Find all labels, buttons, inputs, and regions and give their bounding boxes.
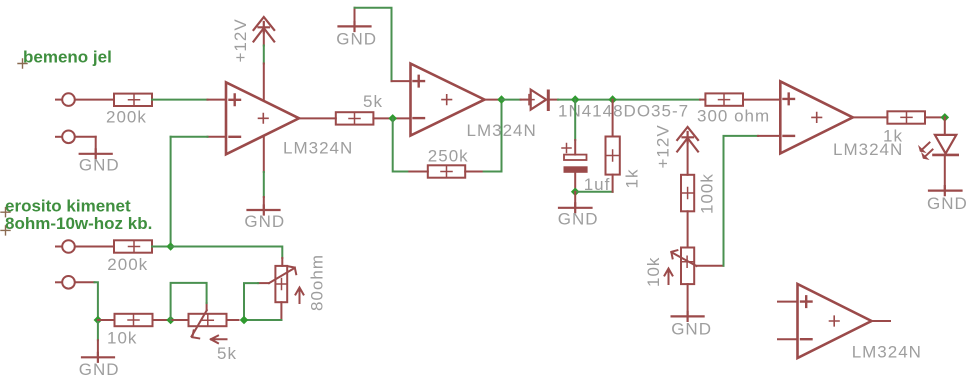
svg-text:GND: GND [244, 212, 285, 231]
svg-text:erosito kimenet: erosito kimenet [5, 197, 131, 216]
resistor R2 5k [336, 92, 383, 125]
node A junction [388, 114, 397, 123]
wire R3 to U1B out [465, 100, 501, 172]
svg-text:5k: 5k [363, 92, 383, 111]
svg-text:bemeno jel: bemeno jel [23, 48, 112, 67]
wire R4 to U1C +in [743, 99, 780, 101]
ground GND under pot R7 [671, 284, 712, 338]
ground GND under LED [927, 186, 968, 213]
node F junction [941, 113, 950, 122]
resistor R3 250k [428, 146, 469, 177]
ground GND under U1A [244, 206, 285, 232]
op-amp U1D LM324N (unused) [778, 284, 922, 362]
wire R2 to node A [373, 117, 410, 119]
label bemeno jel [18, 48, 112, 69]
wire R6 to pot R7 [687, 211, 689, 247]
wire U1A out to R2 [299, 117, 336, 119]
wire node J to pot R12 [171, 319, 189, 321]
wire diode to R4 300ohm [558, 99, 700, 101]
svg-text:8ohm-10w-hoz kb.: 8ohm-10w-hoz kb. [5, 214, 152, 233]
wire +12V to U1A V+ pin [263, 28, 265, 101]
wire node C down to capacitor [574, 100, 576, 155]
svg-text:LM324N: LM324N [283, 139, 353, 158]
wiper wire pot R10 [244, 283, 269, 320]
pin U1A V- and wire to GND [263, 136, 265, 210]
node B junction [497, 95, 506, 104]
wire J2 to ground [95, 137, 97, 154]
svg-text:200k: 200k [107, 255, 148, 274]
pin R8 to node F [925, 116, 945, 118]
label +12V (right) [654, 124, 673, 168]
wire node I to ground [97, 320, 99, 357]
resistor R4 300ohm [697, 93, 770, 125]
wire U1A -in [171, 137, 226, 247]
svg-text:300 ohm: 300 ohm [697, 107, 770, 126]
wire LED to ground [944, 155, 946, 191]
potentiometer R12 5k [189, 310, 237, 363]
connector J3 [56, 240, 114, 253]
supply +12V arrow [254, 17, 275, 42]
pin R4 left [700, 99, 705, 101]
pin node I to R11 [98, 319, 115, 321]
svg-text:GND: GND [79, 156, 120, 175]
ground GND bottom left [79, 353, 120, 379]
node G junction [166, 242, 175, 251]
op-amp U1C LM324N [780, 81, 903, 159]
svg-text:GND: GND [79, 360, 120, 379]
op-amp U1B LM324N [411, 64, 537, 140]
wire R11 to node J [153, 319, 171, 321]
svg-text:80ohm: 80ohm [308, 254, 327, 311]
potentiometer R7 10k (vertical) [644, 248, 697, 288]
svg-text:1k: 1k [623, 169, 642, 189]
label 8ohm-10w-hoz kb. [1, 214, 152, 235]
svg-text:GND: GND [671, 320, 712, 339]
connector J1 [56, 93, 114, 106]
svg-text:10k: 10k [107, 329, 137, 348]
wire node G to pot R10 top [171, 247, 283, 266]
node D junction (1k branch) [608, 95, 617, 104]
wire node E to 1k bottom [575, 191, 612, 193]
wire J4 to node I [95, 282, 98, 320]
label erosito kimenet [1, 197, 131, 217]
pin U1B out [485, 99, 502, 101]
LED D2 [919, 117, 958, 159]
svg-text:+12V: +12V [231, 18, 250, 62]
svg-text:100k: 100k [698, 173, 717, 214]
label 1N4148DO35-7 [558, 101, 689, 120]
wire R9 to node G [152, 246, 171, 248]
capacitor C1 1uf [562, 144, 610, 195]
svg-text:1k: 1k [883, 127, 903, 146]
wiper wire pot R12 to node J [171, 283, 207, 320]
wire pot R12 to node H [227, 319, 239, 321]
svg-text:1N4148DO35-7: 1N4148DO35-7 [558, 101, 689, 120]
node H junction [240, 316, 249, 325]
label +12V (left) [231, 18, 250, 62]
wire +12V to R6 [687, 138, 689, 175]
op-amp U1A LM324N [226, 82, 353, 157]
wire node B to diode [502, 99, 521, 101]
wire J1 to op-amp U1A +in [152, 99, 208, 101]
node E junction below cap [571, 188, 580, 197]
svg-text:200k: 200k [106, 108, 147, 127]
svg-text:10k: 10k [644, 257, 663, 287]
wiper wire pot R7 to U1C -in [697, 136, 781, 266]
svg-text:GND: GND [927, 194, 968, 213]
feedback wire node A down [393, 118, 410, 171]
wire U1C out to R8 [853, 116, 888, 118]
ground GND above U1B [336, 8, 377, 49]
svg-text:LM324N: LM324N [852, 343, 922, 362]
node J junction [166, 316, 175, 325]
potentiometer R10 80ohm (vertical) [269, 254, 327, 311]
connector J4 [56, 276, 95, 289]
resistor R1 200k [106, 94, 152, 127]
node C junction (cap branch) [571, 95, 580, 104]
supply +12V arrow (right) [677, 127, 698, 152]
resistor R9 200k [107, 240, 152, 274]
wire pot R10 bottom to node H [244, 302, 281, 320]
node I junction [94, 316, 103, 325]
resistor R11 10k [107, 314, 153, 348]
diode D1 1N4148 [521, 90, 558, 110]
resistor R6 100k (vertical) [681, 173, 717, 214]
pin R3 left [409, 171, 428, 173]
connector J2 [56, 131, 96, 144]
svg-text:GND: GND [558, 210, 599, 229]
svg-text:250k: 250k [428, 146, 469, 165]
svg-text:5k: 5k [217, 344, 237, 363]
ground GND under J2 [79, 149, 120, 174]
resistor R5 1k (vertical) [606, 100, 642, 192]
wire GND to U1B +in [355, 8, 411, 81]
ground GND under cap [558, 192, 599, 229]
svg-text:+12V: +12V [654, 124, 673, 168]
pin U1A +in [208, 99, 227, 101]
resistor R8 1k [883, 111, 925, 145]
svg-text:GND: GND [336, 30, 377, 49]
